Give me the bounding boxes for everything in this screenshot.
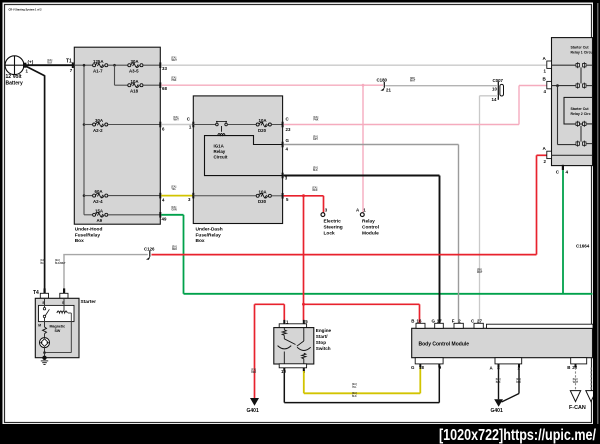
svg-text:[EA]: [EA] (172, 56, 177, 59)
relay pin C 4 below box (556, 165, 569, 175)
pin C 23 (282, 116, 291, 131)
svg-text:BLK: BLK (41, 263, 46, 265)
relay 1 contact (552, 62, 593, 88)
ESS internal right switch (297, 328, 311, 364)
F-CAN dashed line B22 (575, 368, 577, 391)
wire (272, 195, 283, 197)
under-dash internal wire to relay contact (193, 124, 215, 126)
svg-text:[EA]: [EA] (172, 245, 177, 248)
svg-text:Under-Dash: Under-Dash (196, 226, 223, 232)
svg-text:[EA]: [EA] (496, 378, 501, 381)
connector C007 pins 10 14 (492, 78, 504, 102)
pin 49 (159, 212, 167, 222)
svg-text:T1: T1 (66, 59, 72, 65)
watermark bar (0, 425, 600, 444)
svg-text:[EA]: [EA] (41, 259, 46, 262)
svg-text:C126: C126 (144, 246, 155, 251)
Starter box (35, 298, 96, 357)
svg-text:WHT: WHT (174, 120, 180, 122)
magnetic switch box (38, 305, 74, 333)
svg-text:68: 68 (162, 86, 167, 91)
wire battery vertical to starter T4 (44, 75, 46, 289)
pin 33 (159, 62, 167, 71)
svg-text:Relay 2 Circ: Relay 2 Circ (571, 112, 591, 116)
svg-text:BLK: BLK (516, 382, 521, 384)
starter motor M (40, 338, 50, 354)
svg-text:27: 27 (477, 318, 482, 323)
svg-text:BLK/WHT: BLK/WHT (55, 263, 66, 265)
junction (113, 64, 116, 67)
svg-text:BLK: BLK (313, 170, 318, 172)
svg-text:GRN: GRN (172, 210, 177, 212)
wire (143, 64, 160, 66)
wire contact to D20 (227, 124, 256, 126)
Body Control Module (412, 328, 593, 357)
wire YEL ESS pin6 to BCM G18 (303, 371, 305, 393)
wire WHT pin 6 to under-dash C1 (161, 124, 193, 126)
svg-text:C180: C180 (377, 77, 388, 82)
svg-text:14: 14 (492, 97, 497, 102)
svg-text:Steering: Steering (324, 225, 343, 231)
BCM pin C 27 (471, 318, 483, 328)
svg-text:18: 18 (419, 365, 424, 370)
wire (108, 195, 160, 197)
wire RED D30 pin5 (284, 195, 324, 197)
right frame thick band (593, 0, 600, 444)
ground G401 right (491, 399, 504, 414)
svg-text:[EA]: [EA] (251, 368, 256, 371)
svg-text:A3-5: A3-5 (129, 69, 139, 74)
pin 3 (282, 173, 288, 181)
svg-text:Box: Box (75, 238, 84, 244)
svg-text:BLK: BLK (48, 63, 53, 65)
svg-text:F-CAN: F-CAN (569, 405, 586, 411)
pin 5 (282, 193, 289, 202)
svg-text:[EA]: [EA] (573, 378, 578, 381)
under-hood internal bus wire (74, 64, 92, 66)
wire PNK pin 68 to C180 (161, 84, 383, 86)
svg-text:Under-Hood: Under-Hood (75, 226, 103, 232)
svg-text:RED: RED (313, 190, 318, 192)
svg-text:[EA]: [EA] (314, 116, 319, 119)
F-CAN arrow 1 (570, 391, 580, 402)
fuse 125A A1-7 (93, 59, 108, 74)
svg-text:G401: G401 (247, 408, 259, 414)
svg-text:SW: SW (55, 329, 61, 333)
fuse 10A D30 (256, 189, 271, 204)
starter brush zigzag (43, 318, 47, 338)
wire RED down to electric steering lock (323, 196, 325, 213)
BCM top right terminal strip (487, 324, 594, 328)
wire BLK BCM pin2 to ground (518, 368, 520, 394)
svg-text:Battery: Battery (6, 80, 23, 86)
svg-text:CR-V Starting System 1 of 2: CR-V Starting System 1 of 2 (9, 9, 43, 12)
wire BLK/WHT starter S up to C126 (63, 255, 65, 294)
svg-text:[EA]: [EA] (313, 186, 318, 189)
fuse 10A D20 (256, 118, 271, 133)
svg-text:WHT: WHT (477, 272, 483, 274)
wire PNK D20 C23 to relay B4 (284, 124, 519, 126)
svg-text:21: 21 (386, 88, 391, 93)
svg-text:[1020x722]https://upic.me/: [1020x722]https://upic.me/ (439, 427, 596, 444)
wire (272, 124, 283, 126)
pin 6 (159, 122, 165, 132)
svg-text:Electric: Electric (324, 219, 342, 225)
starter solenoid coil (45, 298, 72, 352)
svg-text:10A: 10A (131, 79, 140, 84)
wire GRN relay C4 down to green bus (562, 170, 564, 294)
wire bus to fuse A2-4 (83, 194, 86, 197)
svg-text:RED: RED (172, 249, 177, 251)
svg-text:G: G (411, 365, 415, 370)
pin G 4 (282, 138, 290, 152)
svg-text:A18: A18 (130, 89, 139, 94)
junction pink (362, 84, 365, 87)
wire RED C126 to starter cut relay A2 (152, 254, 537, 256)
svg-text:16: 16 (417, 318, 422, 323)
svg-text:A9: A9 (97, 218, 103, 223)
svg-text:[EA]: [EA] (313, 135, 318, 138)
svg-text:12 Volt: 12 Volt (6, 74, 22, 80)
svg-text:G: G (432, 318, 436, 323)
svg-text:10A: 10A (259, 118, 268, 123)
svg-text:[EA]: [EA] (172, 206, 177, 209)
fuse 10A A18 (128, 79, 143, 94)
svg-text:10A: 10A (259, 189, 268, 194)
BCM pin F 2 (452, 318, 464, 328)
pin C 1 (left) (187, 116, 195, 129)
BCM pin G 17 (432, 318, 444, 328)
wire RED loop to ESS pin1 and G401 (255, 303, 285, 305)
wire BLK BCM pin8 to ground (498, 368, 500, 400)
junction red (302, 194, 305, 197)
svg-text:Box: Box (196, 238, 205, 244)
svg-text:49: 49 (162, 217, 167, 222)
svg-text:Starter: Starter (81, 299, 97, 305)
ground G401 left (247, 398, 260, 414)
wire WHT C007 pin14 down to BCM C27 (480, 95, 499, 97)
svg-text:T4: T4 (33, 290, 39, 296)
F-CAN dashed line 2 (590, 368, 592, 391)
wire WHT C180 to C007 (385, 85, 497, 87)
svg-text:[EA]: [EA] (55, 259, 60, 262)
relay control module pin A 1 (356, 207, 379, 236)
terminal T1 pin 7 (66, 59, 74, 74)
svg-text:F: F (452, 318, 455, 323)
svg-text:Module: Module (362, 230, 379, 236)
wire YEL pin 4 to under-dash (161, 195, 193, 197)
BCM bottom bracket B22 (567, 358, 586, 370)
svg-text:Control: Control (362, 225, 379, 231)
svg-text:Stop: Stop (316, 340, 326, 345)
svg-text:BLK: BLK (352, 396, 357, 398)
svg-text:[EA]: [EA] (352, 392, 357, 395)
svg-text:[EA]: [EA] (172, 185, 177, 188)
svg-text:Starter Cut: Starter Cut (571, 107, 590, 111)
IG1A Relay Circuit box (205, 136, 283, 176)
wire WHT main feed pin 33 to relay A (161, 64, 547, 66)
svg-text:60A: 60A (95, 189, 104, 194)
wire BLK pin3 to BCM G17 (284, 175, 440, 177)
svg-text:IG1A: IG1A (214, 144, 225, 149)
relay pin A 1 (543, 56, 552, 74)
svg-text:B: B (567, 365, 570, 370)
svg-text:Relay: Relay (362, 219, 375, 225)
svg-text:[EB]: [EB] (410, 78, 415, 80)
BCM bottom bracket G18 9 (411, 358, 443, 370)
wire BLK ESS pin10 to BCM 9 (283, 371, 285, 403)
svg-text:WHT: WHT (172, 60, 178, 62)
wire yellow feed to D30 (193, 195, 256, 197)
Under-Dash Fuse/Relay Box (193, 96, 282, 244)
svg-text:30A: 30A (131, 59, 140, 64)
starter contact (43, 298, 49, 317)
wire (108, 124, 160, 126)
svg-text:125A: 125A (93, 59, 104, 64)
svg-text:[EB]: [EB] (477, 269, 482, 271)
svg-text:A1-7: A1-7 (93, 69, 103, 74)
svg-text:G: G (286, 138, 290, 143)
fuse 30A A3-5 (128, 59, 143, 74)
starter ground (41, 353, 48, 365)
pin 4 (159, 193, 165, 203)
IG1A relay contact (216, 121, 228, 135)
junction (83, 64, 86, 67)
BCM pin B 16 (411, 318, 425, 328)
svg-text:17: 17 (437, 318, 442, 323)
relay pin B 4 (543, 76, 552, 94)
fuse 30A A2-2 (93, 118, 108, 133)
relay pin A 2 (543, 146, 552, 164)
svg-text:Fuse/Relay: Fuse/Relay (196, 232, 222, 238)
Under-Hood Fuse/Relay Box (74, 47, 160, 244)
relay 2 contact (556, 84, 592, 146)
wire RED branch to BCM B16 (304, 303, 420, 305)
svg-text:[EA]: [EA] (174, 116, 179, 119)
svg-text:[EA]: [EA] (172, 76, 177, 79)
svg-text:PNK: PNK (314, 120, 319, 122)
wire (108, 64, 128, 66)
svg-text:WHT: WHT (410, 81, 416, 83)
wire bus to fuse A2-2 (83, 123, 86, 126)
svg-text:WHT: WHT (573, 382, 579, 384)
svg-text:Start/: Start/ (316, 334, 328, 339)
starter T4 terminals (33, 288, 68, 298)
connector C126 (144, 246, 155, 260)
svg-text:33: 33 (162, 66, 167, 71)
Starter Cut Relay 1 Circuit box (552, 38, 593, 166)
svg-text:30A: 30A (95, 118, 104, 123)
svg-text:Engine: Engine (316, 328, 332, 333)
svg-text:B: B (411, 318, 414, 323)
svg-text:D30: D30 (258, 199, 267, 204)
wire battery to T1 (BLK) (26, 64, 75, 66)
svg-text:YEL: YEL (172, 189, 177, 191)
svg-text:Circuit: Circuit (214, 155, 228, 160)
Engine Start/Stop Switch (274, 319, 332, 374)
ESS internal left switch (278, 328, 296, 364)
svg-text:Lock: Lock (324, 230, 336, 236)
svg-text:D20: D20 (258, 128, 267, 133)
battery B1 12 Volt (5, 56, 34, 87)
fuse 60A A2-4 (93, 189, 108, 204)
svg-text:4: 4 (566, 170, 569, 175)
connector C180 pin 21 (377, 77, 392, 92)
pin 68 (159, 82, 167, 91)
svg-text:Switch: Switch (316, 346, 331, 351)
F-CAN arrow 2 (586, 391, 596, 402)
wire (143, 84, 160, 86)
svg-text:G401: G401 (491, 408, 503, 414)
svg-text:Relay 1 Circu: Relay 1 Circu (571, 50, 593, 54)
relay A2 internal wire (552, 154, 593, 156)
svg-text:Body Control Module: Body Control Module (419, 341, 470, 347)
svg-text:M: M (38, 323, 41, 327)
svg-text:YEL: YEL (352, 387, 357, 389)
svg-text:A2-2: A2-2 (93, 128, 103, 133)
electric steering lock pin 3 (321, 207, 343, 236)
Starter Cut Relay 2 Circuit box (564, 97, 593, 124)
wire bus to fuse A9 (84, 214, 92, 216)
svg-text:RED: RED (251, 372, 256, 374)
fuse 15A A9 (93, 208, 108, 223)
wire GRN pin 49 down and across (161, 214, 183, 216)
svg-text:C1664: C1664 (576, 244, 590, 249)
BCM bottom bracket A8 2 (490, 358, 522, 371)
wire down to fuse A18 (114, 65, 116, 85)
wire (108, 214, 160, 216)
junction red at ESS branch (302, 303, 305, 306)
svg-text:23: 23 (286, 127, 291, 132)
svg-text:[EA]: [EA] (313, 166, 318, 169)
svg-text:[EA]: [EA] (352, 383, 357, 386)
svg-text:Starter Cut: Starter Cut (571, 46, 590, 50)
svg-text:Relay: Relay (214, 149, 226, 154)
wire RED down to start stop switch pin 5 (303, 196, 305, 321)
svg-text:15A: 15A (95, 208, 104, 213)
svg-text:Fuse/Relay: Fuse/Relay (75, 232, 101, 238)
wire battery diagonal down to starter (25, 66, 45, 76)
svg-text:10: 10 (492, 86, 497, 91)
pin 3 (left lower) (188, 193, 194, 202)
svg-text:GRY: GRY (313, 139, 318, 141)
svg-text:PNK: PNK (172, 80, 177, 82)
svg-text:A2-4: A2-4 (93, 199, 103, 204)
svg-text:BLK: BLK (496, 382, 501, 384)
svg-text:(+): (+) (28, 59, 34, 64)
wire PNK down to relay control module (362, 85, 364, 212)
svg-text:[EA]: [EA] (516, 378, 521, 381)
wire GRY G4 to BCM F2 (284, 144, 459, 146)
svg-text:[EA]: [EA] (48, 59, 53, 62)
